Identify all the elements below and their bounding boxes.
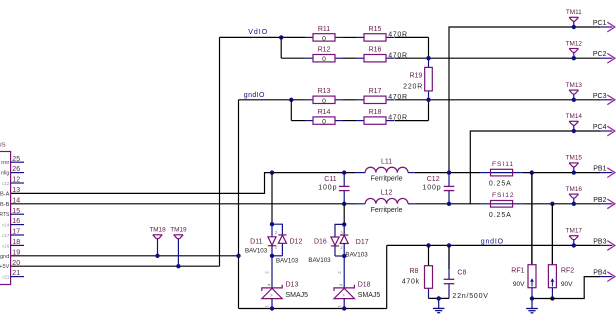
svg-text:90V: 90V	[513, 281, 525, 288]
svg-text:C11: C11	[324, 176, 336, 183]
svg-text:B-B: B-B	[0, 202, 10, 208]
svg-text:470k: 470k	[402, 279, 420, 286]
svg-text:K: K	[339, 284, 344, 287]
svg-text:FSI11: FSI11	[492, 161, 514, 168]
svg-text:TM11: TM11	[566, 9, 582, 16]
svg-text:26: 26	[12, 166, 20, 173]
svg-text:12: 12	[12, 177, 20, 184]
svg-text:TM18: TM18	[149, 227, 166, 234]
svg-text:470R: 470R	[388, 32, 408, 39]
svg-text:R18: R18	[369, 109, 382, 116]
svg-text:gndIO: gndIO	[244, 92, 265, 99]
svg-text:TM13: TM13	[566, 82, 583, 89]
svg-text:470R: 470R	[388, 115, 408, 122]
svg-text:c12: c12	[2, 181, 10, 186]
svg-text:16: 16	[12, 218, 20, 225]
svg-text:PC2: PC2	[593, 51, 607, 58]
svg-text:D16: D16	[314, 238, 327, 245]
svg-text:c17: c17	[2, 233, 10, 238]
svg-text:R13: R13	[318, 88, 331, 95]
svg-text:D13: D13	[286, 282, 299, 289]
svg-text:0.25A: 0.25A	[489, 212, 512, 219]
svg-text:PB2: PB2	[593, 197, 606, 204]
svg-text:0.25A: 0.25A	[489, 181, 512, 188]
svg-text:c21: c21	[2, 275, 10, 280]
svg-text:100p: 100p	[422, 185, 441, 192]
svg-text:US: US	[0, 143, 6, 149]
svg-text:SMAJ5: SMAJ5	[286, 292, 309, 299]
svg-text:TM19: TM19	[170, 227, 187, 234]
svg-text:PC4: PC4	[593, 124, 607, 131]
svg-text:C12: C12	[427, 176, 440, 183]
svg-text:BAV103: BAV103	[276, 258, 299, 265]
svg-text:17: 17	[12, 229, 20, 236]
svg-text:100p: 100p	[318, 185, 337, 192]
svg-text:0: 0	[322, 56, 326, 63]
svg-text:0: 0	[322, 98, 326, 105]
svg-text:c14: c14	[2, 223, 10, 228]
svg-text:TM16: TM16	[566, 186, 583, 193]
svg-text:14: 14	[12, 197, 20, 204]
svg-text:R8: R8	[409, 268, 418, 275]
svg-text:0: 0	[322, 35, 326, 42]
svg-text:RF2: RF2	[561, 268, 574, 275]
svg-text:B-A: B-A	[0, 191, 10, 197]
svg-text:20: 20	[12, 260, 20, 267]
svg-text:220R: 220R	[403, 84, 423, 91]
svg-text:c16: c16	[2, 243, 10, 248]
svg-text:90V: 90V	[561, 281, 573, 288]
svg-text:R15: R15	[369, 26, 382, 33]
svg-text:gndIO: gndIO	[481, 238, 504, 245]
svg-text:PC3: PC3	[593, 93, 607, 100]
svg-text:470R: 470R	[388, 52, 408, 59]
svg-text:TM12: TM12	[566, 40, 583, 47]
svg-text:BAV103: BAV103	[308, 257, 331, 264]
svg-text:FSI12: FSI12	[492, 192, 515, 199]
svg-text:L11: L11	[381, 158, 392, 165]
svg-text:K: K	[267, 284, 272, 287]
svg-text:D18: D18	[358, 282, 371, 289]
svg-text:R19: R19	[409, 73, 422, 80]
svg-text:SMAJ5: SMAJ5	[358, 292, 381, 299]
svg-text:R12: R12	[318, 47, 331, 54]
svg-text:A: A	[269, 294, 274, 297]
svg-text:25: 25	[12, 156, 20, 163]
svg-text:R16: R16	[369, 47, 382, 54]
svg-text:0: 0	[322, 119, 326, 126]
svg-text:TM14: TM14	[566, 113, 583, 120]
svg-text:L12: L12	[381, 190, 393, 197]
svg-text:A: A	[341, 294, 346, 297]
svg-text:nfig: nfig	[1, 171, 9, 177]
svg-text:RTS: RTS	[0, 212, 10, 218]
svg-text:D11: D11	[250, 238, 262, 245]
svg-text:BAV103: BAV103	[345, 251, 368, 258]
svg-text:rror: rror	[1, 160, 9, 166]
svg-text:21: 21	[12, 270, 20, 277]
svg-text:R17: R17	[369, 88, 382, 95]
svg-text:VdIO: VdIO	[248, 29, 268, 36]
svg-text:18: 18	[12, 239, 20, 246]
svg-text:C8: C8	[457, 270, 466, 277]
svg-text:R11: R11	[318, 26, 330, 33]
svg-text:PB1: PB1	[593, 166, 606, 173]
svg-text:15: 15	[12, 208, 20, 215]
svg-text:BAV103: BAV103	[245, 247, 268, 254]
svg-text:19: 19	[12, 249, 20, 256]
svg-text:PB3: PB3	[593, 238, 606, 245]
svg-text:TM15: TM15	[566, 155, 583, 162]
svg-text:Ferritperle: Ferritperle	[371, 207, 403, 214]
svg-text:TM17: TM17	[566, 228, 583, 235]
svg-text:gnd: gnd	[0, 254, 9, 260]
svg-text:PC1: PC1	[593, 20, 607, 27]
svg-text:D12: D12	[290, 239, 303, 246]
svg-text:+5V: +5V	[0, 264, 10, 270]
svg-text:R14: R14	[318, 109, 331, 116]
svg-text:PB4: PB4	[593, 270, 606, 277]
svg-text:22n/500V: 22n/500V	[452, 293, 488, 300]
svg-text:RF1: RF1	[511, 268, 524, 275]
svg-text:Ferritperle: Ferritperle	[371, 176, 403, 183]
svg-text:D17: D17	[356, 239, 369, 246]
svg-text:470R: 470R	[388, 94, 408, 101]
svg-text:13: 13	[12, 187, 20, 194]
